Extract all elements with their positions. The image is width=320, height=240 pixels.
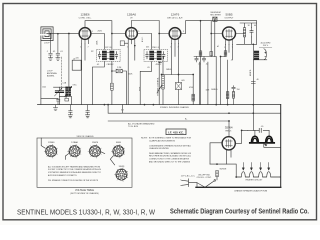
resistor R10	[199, 51, 202, 56]
wire T1 bottom right, capacitor C13 to junction	[111, 62, 126, 105]
svg-text:OUTPUT: OUTPUT	[225, 18, 235, 20]
resistor R12	[224, 51, 227, 56]
wire osc cathode ties	[59, 96, 71, 105]
svg-text:40: 40	[254, 25, 256, 27]
svg-text:250V: 250V	[98, 31, 103, 33]
svg-text:470K: 470K	[189, 87, 194, 89]
svg-text:A.V.C.: A.V.C.	[141, 36, 144, 42]
svg-text:.01: .01	[198, 64, 201, 66]
svg-text:5: 5	[183, 31, 184, 33]
wire V3 plate to V4 grid	[181, 21, 223, 34]
svg-text:SURGE: SURGE	[220, 169, 227, 171]
svg-text:.01: .01	[60, 51, 63, 53]
IF frequency box	[166, 129, 186, 135]
svg-text:BOTH SCREENS LOWER TO RESISTAN: BOTH SCREENS LOWER TO RESISTANCE FOR	[149, 137, 191, 140]
resistor R5	[226, 92, 229, 99]
svg-text:B+: B+	[185, 119, 188, 121]
svg-text:R2: R2	[91, 51, 93, 53]
label loop antenna	[47, 71, 57, 78]
wire antenna down leg	[40, 41, 42, 105]
volume control R2	[157, 57, 164, 105]
svg-text:VIEW OF CHASSIS: VIEW OF CHASSIS	[77, 135, 94, 138]
wire heater right end up	[279, 176, 281, 178]
capacitor C5 on avc	[57, 98, 60, 104]
svg-text:LOOP: LOOP	[44, 43, 50, 45]
junction dots on bus	[107, 104, 109, 106]
svg-text:SENTINEL MODELS 1U330-I, R, W,: SENTINEL MODELS 1U330-I, R, W, 330-I, R,…	[17, 210, 155, 217]
wire V2 pins to bus	[128, 44, 135, 105]
svg-text:6.3: 6.3	[121, 110, 124, 112]
svg-text:B+: B+	[217, 44, 219, 47]
wire middle verticals to bus	[199, 57, 216, 105]
tube V4 50B5 output	[223, 27, 236, 44]
svg-text:.1: .1	[47, 51, 49, 53]
svg-text:VOLTMETER. MAXIMUM VOLTAGE AND: VOLTMETER. MAXIMUM VOLTAGE AND MEASURED …	[48, 171, 102, 174]
svg-text:150 V.: 150 V.	[263, 45, 269, 47]
wire T2 to volume control	[159, 62, 161, 105]
resistor R4	[192, 94, 195, 101]
voltage table box	[37, 138, 132, 187]
wire output plate loop	[236, 23, 257, 130]
svg-text:CLARIFICATION ELEMENTS: CLARIFICATION ELEMENTS	[149, 140, 175, 143]
svg-text:7: 7	[128, 29, 129, 31]
svg-text:DET. A.V.C. A.F.: DET. A.V.C. A.F.	[167, 17, 183, 20]
capacitor C2 with ground	[50, 33, 60, 61]
svg-text:WHEN MANUFACTURED, SEPARATED M: WHEN MANUFACTURED, SEPARATED MODELS IN	[149, 152, 191, 155]
heater arrows	[242, 163, 269, 171]
svg-text:.05: .05	[147, 67, 150, 69]
svg-text:P.M. SPEAKER CONNECTION IS SHO: P.M. SPEAKER CONNECTION IS SHOWN ON THE …	[48, 179, 99, 182]
wire V2 plate right to T2 primary	[137, 34, 151, 50]
micro labels	[80, 31, 252, 76]
capacitor C10 on B+ drop	[251, 82, 255, 84]
svg-text:I.F. 455 KC.: I.F. 455 KC.	[168, 130, 184, 134]
mechanical gang link (dashed)	[61, 57, 63, 89]
svg-text:SYMBOL INDICATES CHASSIS: SYMBOL INDICATES CHASSIS	[160, 106, 189, 109]
svg-text:CHANGE SPEAKER LEADS IF HUM: CHANGE SPEAKER LEADS IF HUM	[234, 189, 267, 192]
IF transformer T2 (2nd IF, dashed box)	[144, 49, 167, 61]
svg-text:50B5: 50B5	[116, 142, 122, 144]
svg-text:.05: .05	[261, 126, 265, 128]
svg-text:7: 7	[178, 47, 179, 49]
svg-text:Schematic Diagram Courtesy of: Schematic Diagram Courtesy of Sentinel R…	[170, 209, 309, 216]
socket X1 12BE6	[41, 138, 57, 158]
wire osc grid feed	[54, 34, 69, 88]
padder capacitor C4	[65, 98, 69, 101]
capacitor C8 hanging	[202, 57, 205, 63]
svg-text:50B5: 50B5	[225, 13, 232, 17]
svg-text:(BOTTOM VIEW OF CHASSIS): (BOTTOM VIEW OF CHASSIS)	[70, 192, 99, 195]
capacitor C7 hanging	[195, 57, 198, 63]
svg-text:1: 1	[170, 47, 171, 49]
junction dot	[68, 33, 70, 35]
wire V1 plate top loop to T1	[85, 21, 112, 50]
svg-text:CHASSIS MOUNTED: CHASSIS MOUNTED	[149, 147, 169, 150]
svg-text:C1A: C1A	[42, 86, 46, 89]
svg-text:RECTIFIER MOUNTED A 35 AND ON: RECTIFIER MOUNTED A 35 AND ON INTO ALL	[149, 155, 192, 158]
svg-text:1MEG: 1MEG	[166, 69, 172, 71]
capacitor C6 (coupling, boxed)	[176, 83, 182, 105]
svg-text:AND GROUNDED DIRECTLY TO THE C: AND GROUNDED DIRECTLY TO THE CHASSIS	[149, 160, 190, 163]
loop antenna L1 (square spiral)	[41, 27, 53, 41]
svg-text:12AT6: 12AT6	[92, 141, 99, 144]
svg-text:2ND I.F.: 2ND I.F.	[152, 47, 160, 49]
svg-text:.2: .2	[231, 60, 233, 62]
svg-text:.05: .05	[97, 64, 100, 66]
svg-text:10M: 10M	[206, 90, 210, 92]
on-off switch S1	[197, 177, 217, 189]
capacitor C1 with ground	[48, 34, 52, 61]
socket X2 12BA6	[65, 144, 81, 159]
svg-text:1: 1	[127, 47, 128, 49]
wire V3 pins down	[172, 44, 179, 83]
svg-text:ACROSS FILAMENT CONTACTS.: ACROSS FILAMENT CONTACTS.	[48, 174, 77, 177]
svg-text:40: 40	[257, 79, 259, 81]
wire V4 pins	[221, 44, 233, 104]
tube V1 12BE6 converter	[79, 28, 91, 44]
svg-text:1: 1	[80, 47, 81, 49]
wire T2 secondary loop to bus	[140, 62, 151, 105]
svg-text:455KC: 455KC	[156, 64, 162, 66]
svg-text:12BA6: 12BA6	[127, 13, 136, 17]
svg-text:1: 1	[224, 47, 225, 49]
wire left avc line	[41, 97, 58, 99]
IF transformer T1 (1st IF, dashed box)	[97, 49, 120, 61]
svg-text:12BA6: 12BA6	[71, 141, 78, 144]
wire avc resistor branch	[162, 75, 194, 105]
oscillator coil L2	[64, 86, 71, 97]
wire bottom dark return line	[196, 186, 281, 188]
wire V5 plate to output transformer	[235, 130, 248, 143]
svg-text:ASSEM.: ASSEM.	[47, 75, 55, 78]
svg-text:12BE6: 12BE6	[80, 13, 89, 17]
svg-text:10MEG: 10MEG	[211, 89, 218, 91]
heater filament string	[236, 172, 280, 177]
wire V5 cathode left	[210, 143, 222, 164]
svg-text:5: 5	[138, 31, 139, 33]
resistor R11	[210, 52, 213, 56]
svg-text:CONNECTIONS TO THE COMMON NEGA: CONNECTIONS TO THE COMMON NEGATIVE	[149, 158, 189, 161]
socket box notes	[48, 165, 102, 182]
svg-text:2.2M: 2.2M	[117, 67, 122, 69]
svg-text:ALL VOLTAGES EXCEPT HEATERS AN: ALL VOLTAGES EXCEPT HEATERS AND MEASURED…	[48, 165, 100, 168]
svg-text:RECT.: RECT.	[226, 131, 233, 133]
svg-text:OSC: OSC	[73, 85, 78, 87]
more micro labels	[42, 31, 232, 121]
tube V3 12AT6 det-avc-af	[169, 28, 181, 44]
svg-text:TO B- BUS: TO B- BUS	[128, 126, 139, 128]
svg-text:SOCKET CONTACTS TO THE COMMON: SOCKET CONTACTS TO THE COMMON NEGATIVE W…	[48, 168, 102, 171]
svg-text:VOLTAGE TABLE: VOLTAGE TABLE	[75, 189, 94, 192]
svg-text:L3: L3	[73, 58, 75, 60]
svg-text:RECTIFIER: RECTIFIER	[210, 14, 221, 16]
svg-text:5: 5	[92, 31, 93, 33]
wire V1 cathode loop	[72, 44, 85, 70]
variable capacitor C3 (osc tuning)	[55, 87, 64, 104]
wire plug to bottom line	[196, 183, 198, 188]
wire right edge vertical	[280, 105, 282, 188]
capacitor C11 to ground	[68, 105, 72, 118]
svg-text:1K: 1K	[248, 25, 251, 27]
wire B+ lower rail 1	[108, 105, 281, 114]
surge resistor R8	[216, 171, 219, 177]
wire V1 pins down	[81, 44, 83, 105]
wire voice coil to right edge	[264, 144, 281, 148]
capacitor C9	[250, 28, 253, 37]
svg-text:HEATER CIRCUIT: HEATER CIRCUIT	[246, 179, 263, 182]
svg-text:470K: 470K	[140, 86, 142, 91]
svg-text:35W4: 35W4	[119, 166, 125, 168]
tube V2 12BA6 IF amp	[126, 28, 138, 44]
value labels	[53, 25, 259, 170]
svg-text:.005: .005	[181, 80, 185, 82]
wire V1 plate right to T1 primary	[91, 34, 105, 50]
wire af line	[194, 56, 216, 58]
wire T1 secondary to V2 grid	[112, 33, 169, 35]
svg-text:7: 7	[232, 47, 233, 49]
power plug P1	[181, 179, 197, 187]
svg-text:12BE6: 12BE6	[48, 142, 55, 144]
capacitor C15 at V2 cathode	[120, 41, 135, 46]
svg-text:CONV. OSC.: CONV. OSC.	[79, 18, 92, 20]
svg-text:40MFD: 40MFD	[250, 69, 252, 76]
svg-text:VOLUME CONTROL: VOLUME CONTROL	[158, 76, 160, 96]
svg-text:220: 220	[76, 58, 79, 60]
socket X3 12AT6	[88, 144, 105, 158]
svg-text:150: 150	[237, 89, 240, 91]
svg-text:ON VOL. CONT.: ON VOL. CONT.	[197, 177, 212, 179]
svg-text:7: 7	[134, 47, 135, 49]
notes text block	[141, 137, 192, 164]
resistor R6	[232, 86, 235, 105]
filter capacitor C14 (electrolytic can)	[254, 49, 267, 60]
wire V5 pins down	[227, 150, 232, 164]
svg-text:.02: .02	[206, 64, 209, 66]
svg-text:1ST I.F.: 1ST I.F.	[105, 47, 112, 49]
svg-text:100K: 100K	[128, 74, 133, 76]
tube V5 35W4 rectifier	[222, 137, 235, 150]
svg-text:C1B: C1B	[63, 83, 67, 85]
wire B+ lower rail 2	[108, 121, 229, 137]
capacitor C12 to ground	[86, 105, 90, 118]
wire antenna to V1 grid	[48, 33, 80, 35]
svg-text:12AT6: 12AT6	[171, 13, 180, 17]
output transformer T3	[248, 128, 274, 143]
svg-text:I.F.: I.F.	[130, 18, 133, 20]
socket X5 35W4	[115, 168, 128, 182]
svg-text:455: 455	[146, 47, 149, 49]
wire top B+ rail	[186, 21, 257, 105]
wire T1 secondary bottom to bus	[92, 62, 104, 105]
selenium rectifier SR	[213, 17, 217, 56]
svg-text:117 V. A.C.-D.C.: 117 V. A.C.-D.C.	[181, 175, 196, 178]
svg-text:.05: .05	[53, 51, 56, 53]
wire bus secondary left	[38, 104, 281, 106]
resistor R7	[243, 28, 246, 37]
svg-text:100K: 100K	[97, 40, 99, 45]
wire switch to heater	[210, 164, 236, 177]
svg-text:35W4: 35W4	[225, 126, 233, 130]
svg-text:7: 7	[88, 29, 89, 31]
svg-text:CONDENSATES OPERATED MODELS WI: CONDENSATES OPERATED MODELS WITH A D	[149, 144, 191, 147]
svg-text:7: 7	[88, 47, 89, 49]
svg-text:NOTE:: NOTE:	[141, 138, 148, 140]
socket X4 50B5	[110, 144, 124, 165]
svg-text:455KC: 455KC	[108, 64, 114, 66]
resistor R3 on avc	[111, 71, 114, 105]
ground below bus left	[53, 105, 57, 111]
wire V2 plate top loop to T2	[132, 21, 160, 50]
